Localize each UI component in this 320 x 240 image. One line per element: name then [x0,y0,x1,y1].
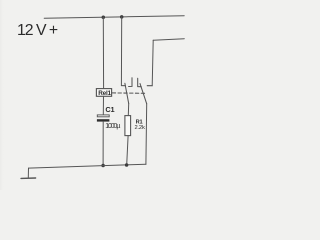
junction A (coil branch on +12V rail) [102,15,106,19]
junction D (R1 on bottom rail) [125,163,129,167]
contact K2 resting throw stub [138,78,142,86]
resistor R1 [125,116,131,136]
svg-text:1000µ: 1000µ [105,123,120,130]
relay coil Rel1 [96,89,111,97]
node 0V bottom rail [29,164,147,168]
ground stub [27,168,29,178]
capacitor C1 negative plate [97,119,110,121]
node lamp output wire [153,39,184,41]
paper background [0,0,200,190]
svg-text:2.2k: 2.2k [135,125,145,131]
junction B (contact branch on +12V rail) [120,15,124,19]
contact K2 fixed terminal foot [147,85,152,87]
svg-text:C1: C1 [105,105,114,114]
capacitor C1 positive plate [97,115,109,117]
wire junction B to contact K1 fixed terminal [120,17,122,86]
svg-text:Rel1: Rel1 [98,90,111,97]
contact K1 fixed terminal foot [121,85,125,87]
wire R1 to bottom rail [127,136,128,165]
wire junction A to relay coil Rel1 [102,17,104,88]
wire C1 to bottom rail [102,122,104,166]
contact K1 spare throw stub [129,78,132,87]
junction C (C1 on bottom rail) [101,164,105,168]
wire arm K2 to bottom rail corner [145,104,148,164]
wire Rel1 to capacitor C1 [102,96,104,115]
faint scan shading at left edge [0,0,5,190]
contact K2 moving arm [140,84,147,104]
dashed mechanical link from Rel1 to contacts [112,92,144,94]
svg-text:12 V +: 12 V + [17,22,58,39]
wire lamp line down to contact K2 fixed terminal [152,40,153,85]
ground bar [21,177,36,179]
wire arm K1 to resistor R1 [127,104,129,116]
node +12V rail (top supply wire) [44,16,184,19]
contact K1 moving arm [125,83,129,103]
